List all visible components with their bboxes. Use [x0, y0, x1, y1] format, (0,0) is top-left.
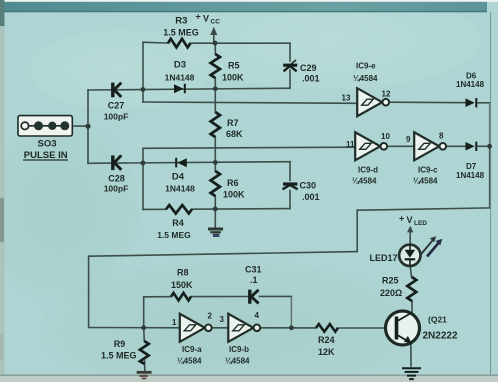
- svg-text:¼4584: ¼4584: [352, 177, 377, 186]
- Vled arrow head: [407, 226, 413, 233]
- svg-text:V: V: [203, 14, 209, 24]
- svg-text:9: 9: [406, 135, 411, 144]
- wire: R8 branch vertical: [143, 297, 145, 328]
- wire: IC9-a out to IC9-b in: [212, 327, 229, 329]
- wire: SO3 output: [72, 125, 88, 127]
- wire: C29 vertical: [289, 43, 291, 61]
- svg-text:IC9-e: IC9-e: [356, 62, 376, 71]
- svg-text:C29: C29: [300, 63, 317, 73]
- node Vcc: [213, 41, 218, 46]
- wire: R4 line: [143, 208, 166, 210]
- right page edge line: [490, 12, 491, 375]
- wire: D4 node line: [88, 162, 290, 164]
- svg-text:3: 3: [220, 315, 225, 324]
- svg-text:150K: 150K: [171, 280, 193, 290]
- inverter IC9-e (1/6 4584): [357, 88, 389, 116]
- connector SO3: [18, 116, 72, 136]
- svg-text:SO3: SO3: [37, 139, 56, 150]
- svg-text:1.5 MEG: 1.5 MEG: [157, 230, 191, 240]
- wire: Vled arrow stem: [409, 232, 411, 245]
- wire: R25 to collector: [411, 301, 413, 313]
- wire: feedback long horizontal: [89, 252, 358, 257]
- wire: IC9-c output to D7: [446, 145, 465, 147]
- wire: feedback left vertical: [88, 256, 90, 327]
- capacitor C31 symbol: [250, 290, 259, 304]
- svg-text:LED: LED: [414, 220, 427, 227]
- svg-text:LED17: LED17: [370, 253, 398, 263]
- Vcc arrow head: [210, 27, 217, 35]
- wire: IC9-e input: [143, 102, 357, 103]
- diode D3: [174, 84, 186, 94]
- wire: IC9-a input line: [89, 327, 180, 329]
- node R9/R8 input: [141, 325, 146, 330]
- wire: feedback vertical x=357: [356, 210, 358, 251]
- resistor R6 zigzag: [211, 171, 220, 196]
- svg-text:100pF: 100pF: [104, 184, 129, 194]
- svg-text:R24: R24: [318, 335, 335, 345]
- svg-text:V: V: [407, 215, 413, 225]
- resistor R25 zigzag: [407, 277, 416, 301]
- node R4 / ground rail: [213, 207, 218, 212]
- svg-text:1N4148: 1N4148: [456, 80, 485, 89]
- svg-text:IC9-b: IC9-b: [229, 345, 249, 354]
- resistor R9 zigzag: [140, 341, 149, 364]
- wire: LED to R25: [410, 266, 411, 277]
- inverter IC9-c (1/6 4584): [414, 132, 446, 160]
- bottom page-edge strip: [0, 375, 498, 376]
- resistor R8 zigzag: [171, 293, 191, 301]
- svg-text:R9: R9: [114, 339, 126, 349]
- svg-text:(Q21: (Q21: [428, 315, 447, 325]
- wire: feedback top horizontal: [357, 208, 489, 210]
- wire: left vertical x=143 top: [142, 42, 144, 102]
- svg-text:.001: .001: [302, 74, 320, 84]
- svg-text:IC9-d: IC9-d: [358, 166, 378, 175]
- node D4 left: [141, 161, 146, 166]
- capacitor C30 symbol: [283, 184, 298, 189]
- svg-text:¼4584: ¼4584: [177, 357, 202, 366]
- node D4 right / rail: [213, 160, 218, 165]
- svg-text:1N4148: 1N4148: [165, 73, 195, 83]
- diode D6: [466, 98, 478, 107]
- svg-text:R5: R5: [228, 61, 240, 71]
- wire: SO3 vertical: [87, 90, 89, 163]
- svg-text:D3: D3: [174, 60, 186, 71]
- top page-edge teal bar: [0, 0, 1, 1]
- resistor R3 zigzag: [168, 39, 191, 48]
- node SO3 tap: [85, 124, 90, 129]
- svg-text:100K: 100K: [223, 190, 245, 200]
- left page edge strip: [0, 0, 5, 382]
- svg-text:8: 8: [439, 132, 444, 141]
- svg-text:C27: C27: [108, 101, 125, 111]
- svg-text:12K: 12K: [318, 347, 335, 357]
- svg-text:100K: 100K: [222, 73, 244, 83]
- wire: IC9-e output to D6: [389, 101, 466, 104]
- wire: emitter down lead: [410, 343, 412, 367]
- inverter IC9-b (1/6 4584): [228, 314, 260, 342]
- wire: R9 leads: [143, 328, 146, 341]
- svg-text:220Ω: 220Ω: [380, 288, 402, 298]
- svg-text:2: 2: [208, 312, 213, 321]
- svg-text:¼4584: ¼4584: [225, 357, 250, 366]
- capacitor C27 symbol: [113, 83, 122, 98]
- svg-text:68K: 68K: [226, 129, 243, 139]
- svg-text:11: 11: [346, 140, 355, 149]
- wire: D3 node line: [88, 88, 290, 90]
- LED emission arrows: [421, 241, 433, 255]
- svg-text:CC: CC: [211, 19, 221, 26]
- svg-text:4: 4: [255, 311, 260, 320]
- resistor R4 zigzag: [166, 205, 192, 213]
- ground (R9): [137, 372, 152, 378]
- wire: Vcc arrow stem: [213, 33, 215, 43]
- node C31 output: [289, 325, 294, 330]
- svg-text:IC9-a: IC9-a: [182, 345, 202, 354]
- capacitor C28 symbol: [113, 155, 122, 170]
- svg-text:¼4584: ¼4584: [413, 177, 438, 186]
- wire: right vertical D6-D7 (faded top): [489, 103, 491, 146]
- svg-text:+: +: [196, 12, 201, 22]
- svg-text:1.5 MEG: 1.5 MEG: [101, 350, 137, 360]
- svg-text:R25: R25: [382, 276, 399, 286]
- wire: IC9-d input: [143, 147, 355, 148]
- wire: R3 top wire: [143, 41, 168, 44]
- resistor R24 zigzag: [316, 324, 338, 332]
- diode D7: [466, 142, 478, 151]
- node D3 left: [141, 87, 146, 92]
- wire: IC9-d to IC9-c: [387, 145, 414, 147]
- wire: R24 to Q21 base: [338, 327, 397, 329]
- svg-text:1: 1: [172, 318, 177, 327]
- wire: left vertical x=143 middle: [142, 148, 144, 209]
- svg-text:+: +: [399, 214, 404, 224]
- svg-text:C28: C28: [108, 174, 125, 184]
- svg-text:.1: .1: [250, 275, 258, 285]
- svg-text:R3: R3: [175, 16, 187, 27]
- ground (rail): [208, 229, 223, 237]
- transistor Q21: [386, 311, 420, 345]
- svg-text:1N4148: 1N4148: [165, 184, 195, 194]
- svg-text:10: 10: [381, 132, 390, 141]
- svg-text:¼4584: ¼4584: [353, 74, 378, 83]
- capacitor C29 symbol: [283, 60, 297, 71]
- svg-text:D7: D7: [466, 162, 477, 171]
- svg-text:1N4148: 1N4148: [456, 171, 485, 180]
- svg-text:R8: R8: [177, 268, 189, 278]
- svg-text:2N2222: 2N2222: [423, 331, 458, 342]
- svg-text:R4: R4: [172, 218, 184, 228]
- svg-text:IC9-c: IC9-c: [418, 166, 438, 175]
- svg-text:13: 13: [342, 94, 351, 103]
- svg-text:D4: D4: [172, 172, 185, 183]
- svg-text:R7: R7: [227, 118, 239, 128]
- svg-text:R6: R6: [227, 178, 239, 188]
- node D7 join: [487, 144, 492, 149]
- node D3 right / rail: [213, 86, 218, 91]
- svg-text:1.5 MEG: 1.5 MEG: [163, 28, 199, 38]
- resistor R5 zigzag: [211, 54, 220, 78]
- wire: Vcc rail segments: [214, 43, 216, 54]
- diode D4: [175, 158, 187, 168]
- wire: C30 vertical: [289, 162, 291, 181]
- inverter IC9-a (1/6 4584): [180, 314, 212, 342]
- ground (Q21 emitter): [402, 368, 421, 379]
- wire: IC9-b out to R24: [260, 327, 316, 329]
- inverter IC9-d (1/6 4584): [355, 132, 387, 160]
- LED LED17: [399, 236, 442, 266]
- svg-text:100pF: 100pF: [104, 112, 129, 122]
- wire: R8/C31 line: [144, 296, 171, 298]
- wire: C31 vertical (faded): [290, 296, 292, 327]
- svg-text:.001: .001: [302, 192, 320, 202]
- svg-text:C31: C31: [245, 265, 262, 275]
- svg-text:12: 12: [382, 90, 391, 99]
- resistor R7 zigzag: [211, 112, 220, 137]
- svg-text:C30: C30: [300, 181, 317, 191]
